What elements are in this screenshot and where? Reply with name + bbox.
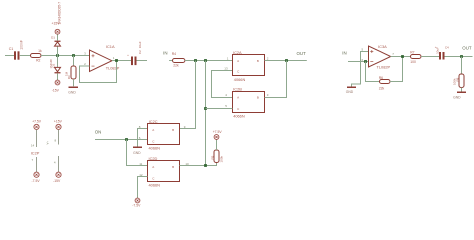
wire R6 to output xyxy=(390,57,403,82)
wire IC2B out riser to OUT xyxy=(265,61,287,98)
analog switch IC2A xyxy=(233,55,265,76)
svg-text:A: A xyxy=(237,59,239,63)
svg-text:13: 13 xyxy=(224,66,228,70)
node junction riser 2 xyxy=(204,59,207,62)
svg-text:-7.5V: -7.5V xyxy=(32,179,41,183)
svg-text:100k: 100k xyxy=(453,78,457,85)
wire IC2A pin13 to IC2B pin4 xyxy=(212,71,233,98)
wire IN to R4 xyxy=(169,60,172,62)
svg-text:100nF: 100nF xyxy=(20,40,24,50)
svg-text:4066N: 4066N xyxy=(149,146,161,151)
svg-text:IC2P: IC2P xyxy=(31,150,40,155)
ground IC2C pin8 xyxy=(133,147,142,149)
svg-text:IC2A: IC2A xyxy=(233,50,242,55)
svg-text:C2: C2 xyxy=(138,50,142,54)
analog switch IC2B xyxy=(233,92,265,113)
resistor R8 xyxy=(459,74,464,88)
capacitor C2 xyxy=(131,57,133,66)
resistor R4 xyxy=(173,59,185,63)
ground IC3A xyxy=(347,87,356,89)
svg-text:1N4148DO35-7: 1N4148DO35-7 xyxy=(58,2,62,25)
svg-text:1N4148: 1N4148 xyxy=(49,59,53,69)
supply +7.5V xyxy=(214,135,219,140)
wire R8 to ground xyxy=(461,88,463,92)
resistor R3 xyxy=(71,66,76,79)
svg-text:GND: GND xyxy=(68,90,76,94)
svg-text:11: 11 xyxy=(139,162,142,166)
analog switch IC2C xyxy=(148,124,180,145)
wire ON to IC2C pin6 xyxy=(95,139,148,141)
node junction riser 1 xyxy=(194,59,197,62)
wire IN to op-amp xyxy=(348,61,369,63)
ground xyxy=(69,87,79,89)
svg-text:GND: GND xyxy=(346,90,354,94)
svg-text:R7: R7 xyxy=(410,51,414,55)
supply +15V (IC1P) xyxy=(56,124,61,129)
svg-text:-15V: -15V xyxy=(52,89,60,93)
supply -7.5V (IC2P) xyxy=(34,172,39,177)
svg-text:-7.5V: -7.5V xyxy=(132,204,141,208)
resistor R6 xyxy=(380,80,391,84)
node output junction xyxy=(115,59,118,62)
diode D2 xyxy=(55,67,61,71)
svg-text:4066N: 4066N xyxy=(149,183,161,188)
node junction at R3 xyxy=(72,54,75,57)
svg-text:4066N: 4066N xyxy=(233,113,245,118)
svg-text:V+: V+ xyxy=(46,141,50,145)
wire + input to ground xyxy=(352,52,369,87)
supply +7.5V (IC2P) xyxy=(34,124,39,129)
capacitor C1 xyxy=(14,51,16,59)
svg-text:D1: D1 xyxy=(51,36,55,40)
supply -7.5V xyxy=(135,198,140,203)
svg-text:22k: 22k xyxy=(173,64,179,68)
wire node to R3 xyxy=(73,56,75,67)
wire to R8 xyxy=(461,57,463,75)
svg-text:100: 100 xyxy=(410,60,416,64)
svg-text:A: A xyxy=(237,96,239,100)
svg-text:22k: 22k xyxy=(379,87,385,91)
svg-text:+7.5V: +7.5V xyxy=(213,130,223,134)
svg-text:A: A xyxy=(152,128,154,132)
pin V+ IC2P xyxy=(36,130,38,148)
svg-text:IN: IN xyxy=(163,50,167,55)
node junction OUT xyxy=(460,55,463,58)
svg-text:C4: C4 xyxy=(445,46,449,50)
svg-text:4066N: 4066N xyxy=(234,77,246,82)
svg-text:GND: GND xyxy=(453,96,461,100)
capacitor C4 xyxy=(439,52,441,60)
svg-text:100k: 100k xyxy=(220,155,224,162)
svg-text:+: + xyxy=(127,53,129,57)
svg-text:+15V: +15V xyxy=(54,120,63,124)
wire output to R7 xyxy=(391,56,411,58)
resistor R2 xyxy=(31,54,42,58)
diode D1 xyxy=(55,42,61,46)
wire IC2C pin8 to ground xyxy=(138,129,148,147)
ground R8 xyxy=(457,92,466,94)
wire pin5 control xyxy=(206,108,233,110)
node junction feedback xyxy=(364,60,367,63)
svg-text:+7.5V: +7.5V xyxy=(32,120,42,124)
svg-text:TL082P: TL082P xyxy=(106,66,120,71)
pin V+ IC1P xyxy=(58,130,60,145)
svg-text:IN: IN xyxy=(342,51,346,56)
analog switch IC2D xyxy=(148,161,180,182)
svg-text:+: + xyxy=(435,45,437,49)
wire to diode D2 xyxy=(57,56,59,68)
svg-text:B: B xyxy=(257,96,259,100)
wire to diode D1 xyxy=(57,46,59,56)
svg-text:R6: R6 xyxy=(379,76,383,80)
wire D1 to +15V xyxy=(57,34,59,40)
svg-text:ON: ON xyxy=(95,129,102,134)
wire R5 to +7.5V xyxy=(216,140,218,151)
resistor R5 xyxy=(214,150,219,163)
wire D2 to -15V xyxy=(57,73,59,80)
svg-text:IC3A: IC3A xyxy=(378,44,387,49)
wire IC2D pin10 to control node xyxy=(180,163,217,166)
svg-text:A: A xyxy=(152,165,154,169)
svg-text:B: B xyxy=(172,165,174,169)
wire IC2A out to OUT xyxy=(265,60,307,62)
wire - input to R6 xyxy=(366,62,380,82)
node junction at diodes xyxy=(56,54,59,57)
pin V- IC1P xyxy=(58,156,60,172)
svg-text:IC2B: IC2B xyxy=(233,87,242,92)
wire R4 to IC2A pin 1 xyxy=(185,60,233,62)
svg-text:OUT: OUT xyxy=(297,51,307,56)
wire C4 to OUT xyxy=(445,56,473,58)
wire C2 out xyxy=(137,60,148,62)
node junction output xyxy=(401,55,404,58)
wire R3 to ground xyxy=(73,79,75,86)
node junction ON xyxy=(125,138,128,141)
svg-text:-15V: -15V xyxy=(53,179,61,183)
pin V- IC2P xyxy=(36,157,38,172)
wire IC2D pin12 to -7.5V xyxy=(138,177,148,199)
svg-text:10uF: 10uF xyxy=(138,41,142,48)
svg-text:1k: 1k xyxy=(38,49,42,53)
wire R2 to op-amp input xyxy=(41,55,90,57)
svg-text:C1: C1 xyxy=(9,47,14,51)
node junction control xyxy=(204,164,207,167)
svg-text:R5: R5 xyxy=(210,155,214,159)
op-amp IC1A xyxy=(90,50,112,72)
svg-text:14: 14 xyxy=(31,144,35,148)
supply +15V xyxy=(55,29,60,34)
svg-text:1M: 1M xyxy=(64,71,68,76)
svg-text:B: B xyxy=(257,59,259,63)
wire riser to control net xyxy=(205,61,207,166)
svg-text:OUT: OUT xyxy=(462,45,472,50)
svg-text:B: B xyxy=(172,128,174,132)
supply -15V xyxy=(55,80,60,85)
node junction pin5 xyxy=(204,107,207,110)
wire C1 to R2 xyxy=(20,55,31,57)
supply -15V (IC1P) xyxy=(56,172,61,177)
wire ON drop to IC2D pin11 xyxy=(127,140,148,166)
svg-text:IC1A: IC1A xyxy=(106,44,115,49)
svg-text:GND: GND xyxy=(133,151,141,155)
svg-text:R2: R2 xyxy=(36,59,40,63)
feedback wire IC1A xyxy=(80,61,117,83)
wire input stub to C1 xyxy=(5,55,14,57)
svg-text:IC2C: IC2C xyxy=(149,119,158,124)
svg-text:IC2D: IC2D xyxy=(149,156,158,161)
resistor R7 xyxy=(411,55,422,59)
output wire xyxy=(112,60,131,62)
node junction OUT xyxy=(285,59,288,62)
svg-text:R4: R4 xyxy=(172,52,176,56)
wire riser to IC2C output xyxy=(180,61,196,129)
op-amp IC3A xyxy=(369,46,391,67)
svg-text:TL082P: TL082P xyxy=(377,64,391,69)
wire R7 to C4 xyxy=(421,56,439,58)
